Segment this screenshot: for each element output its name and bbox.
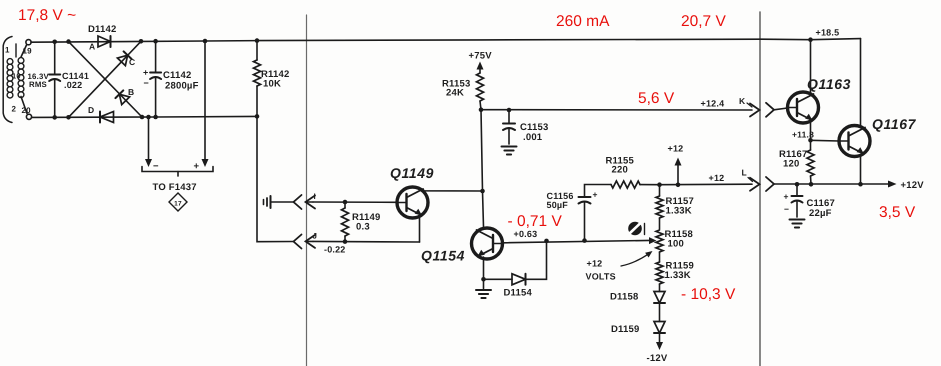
svg-text:I: I xyxy=(314,192,316,201)
svg-text:D1142: D1142 xyxy=(88,24,116,35)
svg-text:L: L xyxy=(742,168,747,178)
svg-text:Q1167: Q1167 xyxy=(872,116,917,132)
wire top rail corner down to Q1167 collector xyxy=(860,39,862,127)
wire Q1163 emitter to node xyxy=(808,120,813,143)
svg-text:24K: 24K xyxy=(446,88,464,99)
transistor Q1167 xyxy=(839,116,917,157)
section separator line 2 xyxy=(759,12,761,366)
diode D1142-A xyxy=(89,36,111,52)
svg-text:Q1154: Q1154 xyxy=(421,248,465,264)
svg-text:10K: 10K xyxy=(263,79,281,90)
svg-text:C1142: C1142 xyxy=(163,70,191,81)
connector L pair xyxy=(742,168,775,192)
diode D1158 xyxy=(610,284,665,303)
terminal 2 xyxy=(12,105,17,114)
wire Q1167 emitter down xyxy=(861,154,864,185)
wire Q1154 base to divider xyxy=(504,238,651,243)
label +0.63 xyxy=(514,229,538,239)
label -0.22 xyxy=(324,245,346,255)
svg-text:+12.4: +12.4 xyxy=(701,99,725,109)
svg-text:+75V: +75V xyxy=(469,51,493,62)
svg-text:20,7 V: 20,7 V xyxy=(681,13,726,30)
svg-text:1.33K: 1.33K xyxy=(665,270,691,281)
svg-text:17,8 V ~: 17,8 V ~ xyxy=(18,7,76,24)
label +11.8 xyxy=(792,130,814,140)
svg-text:+12: +12 xyxy=(587,259,603,269)
resistor R1167 xyxy=(779,140,814,184)
wire to F1437 plus xyxy=(194,41,209,172)
svg-text:+: + xyxy=(143,68,148,78)
wire connector K to Q1163 base xyxy=(774,108,788,110)
svg-text:- 0,71 V: - 0,71 V xyxy=(508,213,563,230)
svg-text:+12: +12 xyxy=(668,144,684,154)
wire +12V output xyxy=(774,180,924,191)
section separator line 1 xyxy=(306,15,308,366)
svg-text:D1158: D1158 xyxy=(610,292,638,303)
capacitor C1141 xyxy=(49,42,89,118)
label +18.5 xyxy=(816,28,840,38)
svg-text:50µF: 50µF xyxy=(547,200,569,210)
junction dots top rail xyxy=(52,37,812,44)
svg-text:+12V: +12V xyxy=(901,180,925,191)
terminal 1 xyxy=(5,46,10,55)
resistor R1155 xyxy=(606,156,660,189)
wire Q1149 emitter xyxy=(420,216,423,243)
wire connector I to Q1149 base xyxy=(313,200,397,205)
transistor Q1154 xyxy=(421,228,503,264)
wire bridge diagonal down xyxy=(69,42,143,117)
wire Q1154 emitter to ground xyxy=(476,257,491,298)
connector K pair xyxy=(739,96,774,117)
svg-text:+18.5: +18.5 xyxy=(816,28,840,38)
wire top rail to Q1163 collector xyxy=(810,40,812,94)
terminal 20 xyxy=(22,106,32,119)
svg-text:.001: .001 xyxy=(523,132,543,143)
svg-text:D1154: D1154 xyxy=(504,288,533,299)
wire connector J to Q1149 emitter xyxy=(313,239,420,244)
wire R1153 junction to connector K xyxy=(479,107,752,112)
svg-text:D1159: D1159 xyxy=(611,324,639,335)
diode D1142-B xyxy=(115,87,134,105)
resistor R1153 xyxy=(442,73,484,110)
power +75V xyxy=(469,51,493,74)
resistor R1149 xyxy=(342,202,381,242)
transistor Q1163 xyxy=(788,76,852,123)
wire Q1149 collector xyxy=(423,189,485,194)
wire node to Q1167 base xyxy=(811,139,840,142)
screwdriver adjust symbol xyxy=(628,222,644,236)
svg-text:22µF: 22µF xyxy=(809,208,832,219)
resistor R1159 xyxy=(656,261,694,285)
transformer voltage label 16.3V RMS xyxy=(28,72,50,89)
svg-text:Q1163: Q1163 xyxy=(807,76,851,92)
power +12 up xyxy=(668,144,684,188)
svg-text:17: 17 xyxy=(174,201,182,208)
svg-text:.022: .022 xyxy=(64,80,82,90)
wire R1153 node to Q1154 collector xyxy=(481,110,484,227)
wire to F1437 minus xyxy=(145,117,159,172)
wire top rail xyxy=(31,39,861,43)
resistor R1157 xyxy=(656,185,694,218)
junction dots bottom rail xyxy=(52,114,259,120)
svg-text:260 mA: 260 mA xyxy=(556,13,610,30)
svg-text:19: 19 xyxy=(23,47,33,56)
label +12.4 xyxy=(701,99,725,109)
wire bottom rail down to connector J xyxy=(257,116,294,241)
transformer winding primary xyxy=(3,37,13,123)
diode D1159 xyxy=(611,303,665,335)
transistor Q1149 xyxy=(390,165,434,218)
capacitor C1142 xyxy=(143,41,199,117)
wire bottom rail xyxy=(32,116,258,117)
svg-text:10: 10 xyxy=(12,72,21,81)
svg-text:2800µF: 2800µF xyxy=(165,81,199,92)
svg-text:5,6 V: 5,6 V xyxy=(638,90,675,107)
connector J pair xyxy=(294,232,318,249)
svg-text:+: + xyxy=(593,190,598,200)
svg-text:-0.22: -0.22 xyxy=(324,245,346,255)
svg-text:K: K xyxy=(739,96,746,106)
terminal 10 label xyxy=(12,72,21,81)
annotation 260 mA xyxy=(556,13,610,30)
connector I pair xyxy=(294,192,316,209)
svg-text:D: D xyxy=(88,105,94,115)
svg-text:J: J xyxy=(313,232,318,241)
svg-text:−: − xyxy=(153,161,159,172)
svg-text:3,5 V: 3,5 V xyxy=(879,204,916,221)
annotation 5,6 V xyxy=(638,90,675,107)
label +12 at L xyxy=(709,173,725,183)
svg-text:220: 220 xyxy=(612,165,628,176)
potentiometer R1158 xyxy=(649,218,693,262)
svg-text:−: − xyxy=(784,204,789,214)
capacitor C1167 xyxy=(784,184,835,227)
svg-text:+: + xyxy=(194,161,200,172)
diode D1154 xyxy=(484,241,547,299)
ground at connector I xyxy=(264,196,294,208)
capacitor C1153 xyxy=(502,110,549,155)
terminal 19 xyxy=(23,40,33,56)
annotation -10,3 V xyxy=(681,286,736,303)
bracket TO F1437 xyxy=(142,167,213,194)
svg-text:A: A xyxy=(89,42,95,52)
svg-text:-12V: -12V xyxy=(647,353,668,364)
svg-text:−: − xyxy=(144,78,149,88)
svg-text:VOLTS: VOLTS xyxy=(586,272,616,282)
svg-text:1: 1 xyxy=(5,46,10,55)
svg-text:+11.8: +11.8 xyxy=(792,130,814,140)
svg-text:100: 100 xyxy=(668,239,684,250)
svg-text:B: B xyxy=(128,87,134,97)
svg-text:Q1149: Q1149 xyxy=(390,165,434,181)
svg-text:2: 2 xyxy=(12,105,17,114)
svg-text:TO F1437: TO F1437 xyxy=(153,182,197,193)
transformer winding secondary xyxy=(16,44,27,114)
annotation 3,5 V xyxy=(879,204,916,221)
annotation 17,8 V ~ xyxy=(18,7,76,24)
svg-text:1.33K: 1.33K xyxy=(666,206,692,217)
capacitor C1156 xyxy=(547,185,612,241)
diode D1142-D xyxy=(88,105,114,123)
wire +12 node to connector L xyxy=(657,182,752,187)
annotation 20,7 V xyxy=(681,13,726,30)
symbol diamond 17 xyxy=(169,193,187,211)
label D1142 xyxy=(88,24,116,35)
diode D1142-C xyxy=(117,51,135,67)
svg-text:20: 20 xyxy=(22,106,32,115)
resistor R1142 xyxy=(254,41,290,117)
wire bridge diagonal up xyxy=(69,41,142,117)
svg-text:0.3: 0.3 xyxy=(356,222,370,233)
svg-text:+0.63: +0.63 xyxy=(514,229,538,239)
adjust arrow from +12 VOLTS xyxy=(586,251,653,282)
svg-text:- 10,3 V: - 10,3 V xyxy=(681,286,736,303)
power -12V xyxy=(647,333,668,364)
svg-text:C: C xyxy=(129,57,135,67)
svg-text:120: 120 xyxy=(783,159,799,170)
svg-text:+: + xyxy=(784,192,789,202)
annotation -0,71 V xyxy=(508,213,563,230)
svg-text:RMS: RMS xyxy=(29,80,47,89)
svg-text:+12: +12 xyxy=(709,173,725,183)
